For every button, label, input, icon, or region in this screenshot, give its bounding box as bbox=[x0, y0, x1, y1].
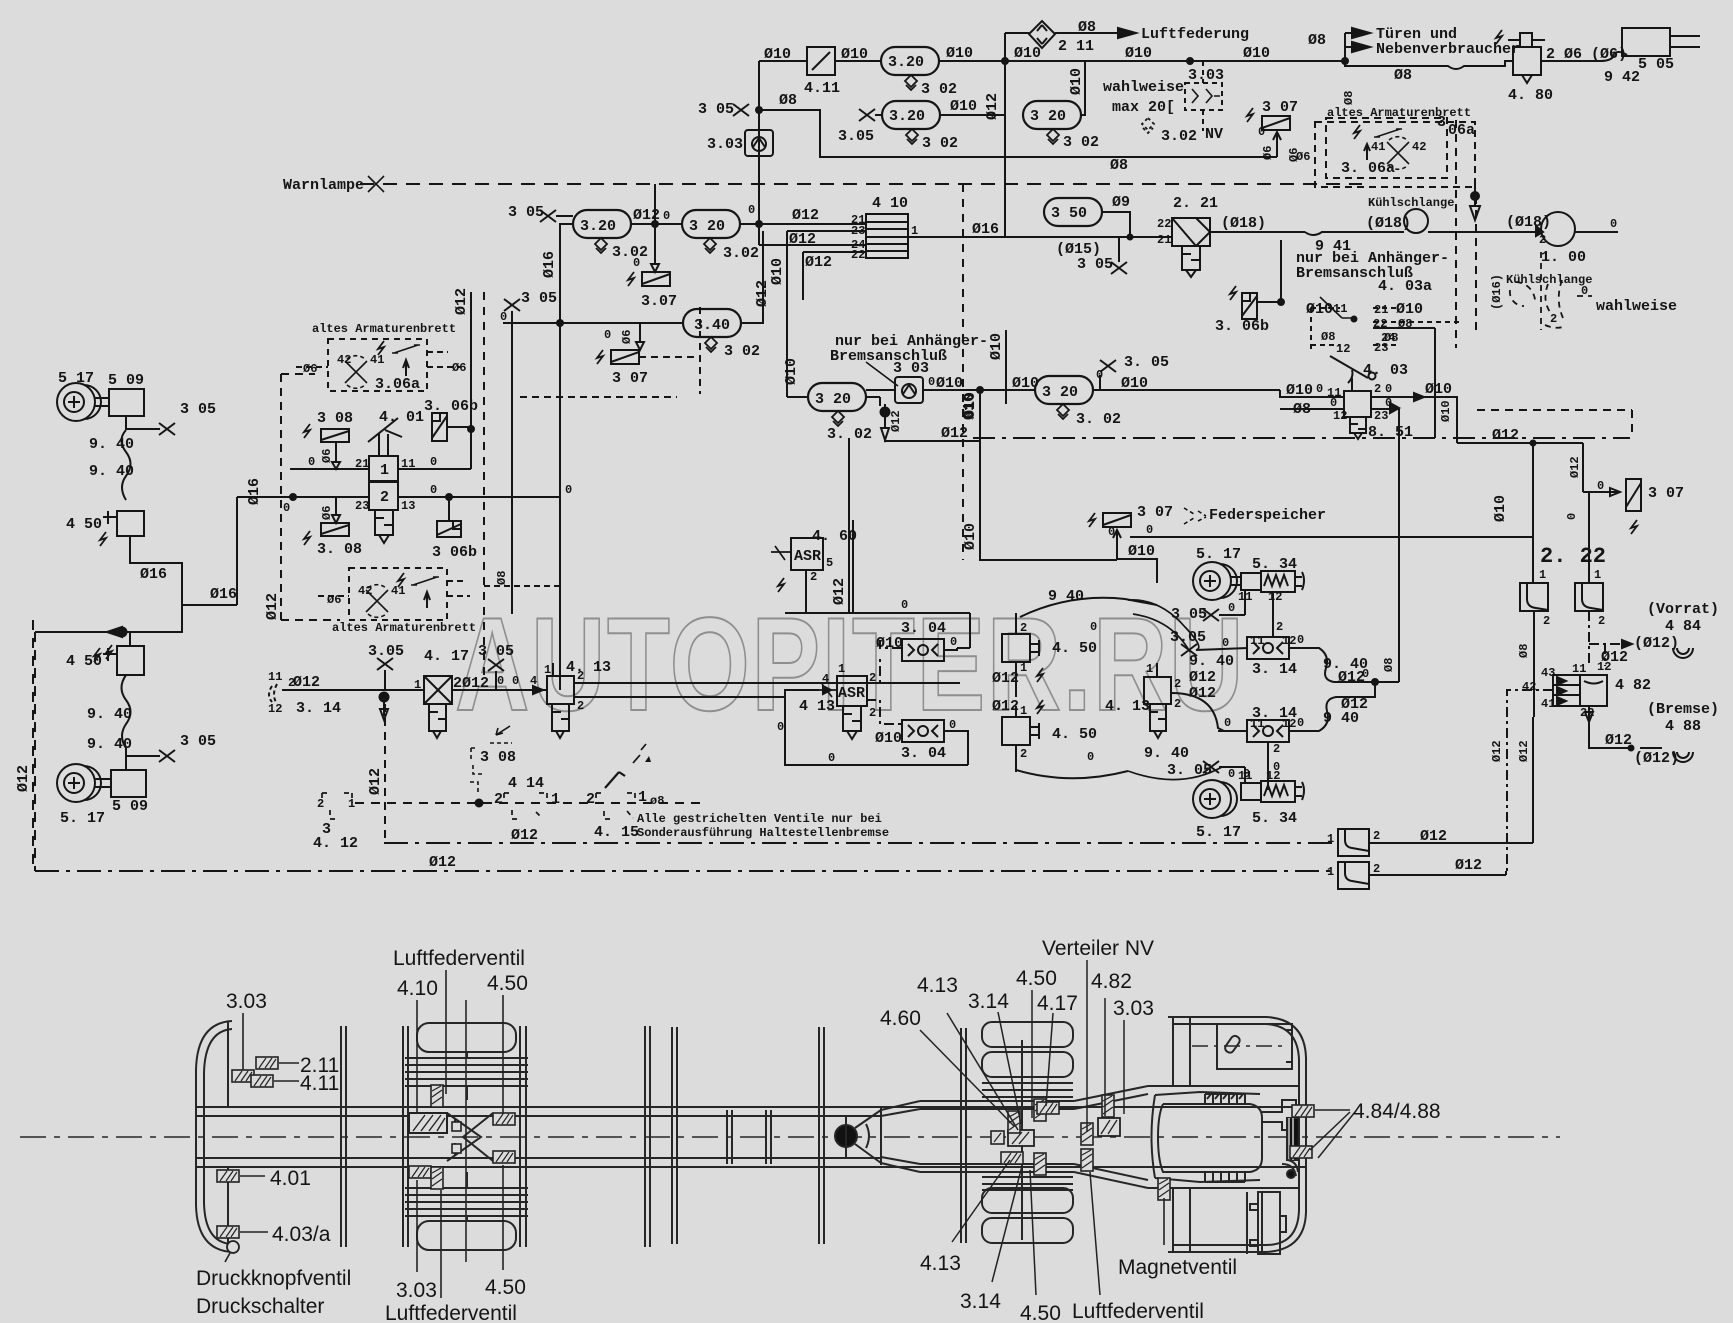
svg-text:Ø10: Ø10 bbox=[1286, 382, 1313, 399]
crossmember x520 bbox=[520, 1026, 526, 1247]
svg-text:Ø16: Ø16 bbox=[541, 251, 558, 278]
svg-text:3. 14: 3. 14 bbox=[1252, 661, 1297, 678]
svg-text:Ø6: Ø6 bbox=[303, 362, 317, 376]
svg-text:Ø10: Ø10 bbox=[1012, 375, 1039, 392]
valve block 4.01 lower bbox=[369, 482, 398, 510]
svg-text:0: 0 bbox=[308, 455, 315, 469]
svg-text:Ø8: Ø8 bbox=[1398, 317, 1412, 331]
svg-text:41: 41 bbox=[1371, 140, 1385, 154]
reservoir 3.20 no6 bbox=[682, 210, 740, 238]
svg-text:Ø8: Ø8 bbox=[1394, 67, 1412, 84]
svg-text:4. 50: 4. 50 bbox=[1052, 640, 1097, 657]
svg-text:9. 40: 9. 40 bbox=[89, 436, 134, 453]
tee Vorrat bbox=[1589, 644, 1630, 666]
wire 2.22a stem bbox=[1534, 492, 1589, 583]
node J1 bbox=[1002, 58, 1008, 64]
svg-text:0: 0 bbox=[500, 310, 507, 324]
wire x980 drop bbox=[980, 390, 1117, 560]
node below 3.03b bbox=[881, 408, 890, 417]
svg-text:22: 22 bbox=[851, 248, 865, 262]
svg-text:3 05: 3 05 bbox=[698, 101, 734, 118]
svg-text:3.14: 3.14 bbox=[960, 1290, 1001, 1313]
svg-text:4 50: 4 50 bbox=[66, 516, 102, 533]
svg-text:Ø6: Ø6 bbox=[452, 361, 466, 375]
sensor small vert b bbox=[431, 1167, 443, 1189]
drain 3.02 no4 bbox=[1047, 129, 1059, 144]
svg-text:3 20: 3 20 bbox=[815, 391, 851, 408]
wire 4.03 lower right bbox=[1371, 409, 1399, 682]
svg-text:2: 2 bbox=[1174, 677, 1181, 691]
box altes Armaturenbrett bottom bbox=[349, 568, 447, 620]
svg-text:9. 40: 9. 40 bbox=[89, 463, 134, 480]
wire Ø8 x1400 bbox=[1398, 409, 1400, 682]
wire left arrow branch bbox=[35, 605, 182, 632]
wire ASR2 port2b down bbox=[866, 700, 902, 724]
drain 4.80 bbox=[1522, 75, 1532, 83]
gearbox right bbox=[1262, 1100, 1296, 1130]
svg-text:12: 12 bbox=[1266, 769, 1280, 783]
svg-text:Ø9: Ø9 bbox=[1112, 194, 1130, 211]
svg-text:22: 22 bbox=[1580, 706, 1594, 720]
test point 3.05 g bbox=[126, 755, 160, 757]
svg-text:altes Armaturenbrett: altes Armaturenbrett bbox=[312, 322, 456, 336]
svg-text:4.50: 4.50 bbox=[1020, 1302, 1061, 1323]
svg-text:Ø12: Ø12 bbox=[1189, 685, 1216, 702]
wire 42 dashdot left bbox=[1507, 690, 1553, 871]
lightning 3.07 no1 bbox=[628, 272, 634, 286]
svg-text:3. 08: 3. 08 bbox=[317, 541, 362, 558]
svg-text:2: 2 bbox=[1276, 620, 1283, 634]
valve 3.07 no3 bbox=[1103, 513, 1131, 527]
articulation pivot bbox=[835, 1125, 857, 1147]
svg-text:Ø8: Ø8 bbox=[779, 92, 797, 109]
drain 3.02 no6 bbox=[704, 238, 716, 253]
svg-text:42: 42 bbox=[1412, 140, 1426, 154]
switch sym 3.06a bbox=[392, 345, 420, 353]
wire Ø12 elbow bbox=[885, 440, 979, 441]
node y443 bbox=[1531, 441, 1536, 446]
svg-text:0: 0 bbox=[1228, 767, 1235, 781]
svg-text:Ø10: Ø10 bbox=[841, 46, 868, 63]
svg-text:2. 21: 2. 21 bbox=[1173, 195, 1218, 212]
bowl 4.17 bbox=[429, 704, 446, 738]
node x655 bbox=[652, 221, 658, 227]
svg-text:Ø12: Ø12 bbox=[1455, 857, 1482, 874]
dashed border left bbox=[32, 620, 34, 871]
wire into 5.09no2 bbox=[125, 748, 127, 770]
svg-text:0: 0 bbox=[1597, 479, 1604, 493]
svg-text:2: 2 bbox=[1550, 312, 1557, 326]
svg-text:Ø10: Ø10 bbox=[769, 258, 786, 285]
wire Ø6 drop2 bbox=[332, 497, 340, 523]
wire box2 out bbox=[1369, 871, 1506, 875]
valve 4.15 dashes bbox=[596, 793, 635, 819]
sensor small vert a bbox=[431, 1085, 443, 1107]
svg-text:Ø12: Ø12 bbox=[992, 670, 1019, 687]
sym 13.08 bbox=[470, 743, 512, 792]
dashed verticals right bbox=[1456, 120, 1476, 348]
engine teeth top bbox=[1205, 1094, 1245, 1104]
reservoir 3.20 no1 bbox=[881, 47, 939, 75]
svg-text:Ø8: Ø8 bbox=[1321, 330, 1335, 344]
svg-text:4.11: 4.11 bbox=[300, 1072, 339, 1095]
svg-text:4. 17: 4. 17 bbox=[424, 648, 469, 665]
dryer 4.01 bbox=[375, 510, 393, 543]
wire 22 down bbox=[1585, 706, 1631, 748]
svg-text:0: 0 bbox=[828, 751, 835, 765]
svg-text:Ø10: Ø10 bbox=[1068, 68, 1085, 95]
svg-text:(Ø18): (Ø18) bbox=[1366, 215, 1411, 232]
wire 4.17 to 4.13 bbox=[452, 689, 547, 691]
svg-text:4.82: 4.82 bbox=[1091, 970, 1132, 993]
svg-text:Ø12: Ø12 bbox=[1492, 427, 1519, 444]
arrow down Ø12 bbox=[881, 404, 889, 440]
svg-text:3.20: 3.20 bbox=[580, 218, 616, 235]
test point 3.05 n bbox=[488, 659, 504, 671]
svg-text:3.03: 3.03 bbox=[1188, 67, 1224, 84]
svg-text:1: 1 bbox=[1020, 661, 1027, 675]
body front verticals bbox=[1173, 1017, 1190, 1252]
compressor 5.05 bbox=[1622, 28, 1670, 56]
svg-text:2: 2 bbox=[1543, 614, 1550, 628]
wire Ø10 x1533 bbox=[1532, 443, 1534, 583]
svg-text:2 11: 2 11 bbox=[1058, 38, 1094, 55]
wire 5.34r1 port11 bbox=[1244, 590, 1246, 615]
small squares bbox=[452, 1122, 461, 1131]
wire top right Tueren arrows bbox=[1345, 33, 1352, 61]
svg-text:0: 0 bbox=[1316, 382, 1323, 396]
svg-text:Ø16: Ø16 bbox=[972, 221, 999, 238]
svg-text:Ø10: Ø10 bbox=[1492, 495, 1509, 522]
svg-text:2Ø12: 2Ø12 bbox=[453, 675, 489, 692]
dash arrows Federspeicher bbox=[1184, 508, 1206, 524]
wire x1157 drop bbox=[1117, 537, 1157, 580]
inner crossmember x727 bbox=[727, 1110, 732, 1164]
spring cylinder 5.34 r1 bbox=[1241, 571, 1304, 592]
svg-text:3 07: 3 07 bbox=[612, 370, 648, 387]
wire 2.21 out Ø18 bbox=[1210, 231, 1305, 233]
svg-text:4 14: 4 14 bbox=[508, 775, 544, 792]
front wheel bottom bbox=[417, 1221, 516, 1250]
wire pill5-pill6 bbox=[631, 223, 682, 225]
svg-text:(Ø12): (Ø12) bbox=[1634, 635, 1679, 652]
svg-text:4.17: 4.17 bbox=[1037, 992, 1078, 1015]
svg-text:4.10: 4.10 bbox=[397, 977, 438, 1000]
lightning 3.06a b bbox=[398, 573, 404, 587]
wire 3.14r1 out bbox=[1289, 648, 1375, 682]
svg-text:2: 2 bbox=[869, 706, 876, 720]
svg-text:4. 50: 4. 50 bbox=[1052, 726, 1097, 743]
wire 4.50r3 net bbox=[970, 613, 1016, 628]
svg-text:3.07: 3.07 bbox=[641, 293, 677, 310]
svg-text:1: 1 bbox=[348, 797, 355, 811]
front bumper inner bbox=[204, 1029, 232, 1244]
svg-text:0: 0 bbox=[1362, 667, 1369, 681]
svg-text:Ø12: Ø12 bbox=[831, 578, 848, 605]
svg-text:12: 12 bbox=[1336, 342, 1350, 356]
body outline rear bbox=[1168, 1017, 1306, 1252]
svg-text:NV: NV bbox=[1205, 126, 1223, 143]
arrow on wire bbox=[1414, 393, 1424, 401]
lightning 3.06a bbox=[378, 341, 384, 355]
svg-text:21: 21 bbox=[1157, 233, 1171, 247]
svg-text:5. 34: 5. 34 bbox=[1252, 810, 1297, 827]
wire ASR1 down bbox=[805, 570, 807, 613]
svg-text:41: 41 bbox=[1541, 697, 1555, 711]
svg-text:(Vorrat): (Vorrat) bbox=[1647, 601, 1719, 618]
svg-text:0: 0 bbox=[1222, 636, 1229, 650]
svg-text:4: 4 bbox=[530, 674, 537, 688]
wire x1006 seg bbox=[1005, 330, 1007, 404]
dryer ASR2 bbox=[843, 706, 861, 739]
svg-text:2: 2 bbox=[1174, 697, 1181, 711]
wire x1375 to x1400 bbox=[1375, 681, 1399, 683]
svg-text:Ø12: Ø12 bbox=[264, 593, 281, 620]
svg-text:3. 04: 3. 04 bbox=[901, 620, 946, 637]
svg-text:3 20: 3 20 bbox=[689, 218, 725, 235]
valve 3.08 no1 bbox=[321, 429, 349, 442]
lightning 4.80 bbox=[1496, 30, 1502, 44]
svg-text:Ø6: Ø6 bbox=[320, 449, 334, 463]
svg-text:Ø10: Ø10 bbox=[1121, 375, 1148, 392]
svg-text:Ø12: Ø12 bbox=[792, 207, 819, 224]
svg-text:4 50: 4 50 bbox=[66, 653, 102, 670]
svg-text:altes Armaturenbrett: altes Armaturenbrett bbox=[332, 621, 476, 635]
svg-text:Ø10: Ø10 bbox=[1128, 543, 1155, 560]
svg-text:Ø12: Ø12 bbox=[1490, 740, 1504, 762]
frame taper to body bbox=[1074, 1086, 1148, 1188]
wire x1085 riser bbox=[1080, 61, 1085, 115]
wire 3.06b3 out bbox=[1257, 301, 1281, 303]
front wheel top bbox=[417, 1023, 516, 1052]
svg-text:Ø8: Ø8 bbox=[495, 571, 509, 585]
pipe gauge1 bbox=[95, 398, 109, 406]
svg-text:3.14: 3.14 bbox=[968, 990, 1009, 1013]
svg-text:Ø10: Ø10 bbox=[876, 635, 903, 652]
svg-text:22: 22 bbox=[1157, 217, 1171, 231]
svg-text:0: 0 bbox=[1096, 368, 1103, 382]
svg-text:3. 05: 3. 05 bbox=[1167, 762, 1212, 779]
svg-text:3 08: 3 08 bbox=[480, 749, 516, 766]
wire x512 drop bbox=[511, 323, 513, 614]
lightning 3.07no3 bbox=[1089, 513, 1095, 527]
druckknopf button bbox=[227, 1241, 239, 1253]
drain 3.02 no1 bbox=[905, 75, 917, 90]
wire top port bbox=[552, 663, 554, 676]
svg-text:12: 12 bbox=[1597, 660, 1611, 674]
node J4 bbox=[756, 107, 762, 113]
svg-text:4. 03a: 4. 03a bbox=[1378, 278, 1432, 295]
air dryer 4.13 r bbox=[1144, 677, 1171, 704]
svg-text:Luftfederventil: Luftfederventil bbox=[1072, 1300, 1204, 1323]
test point 3.05 c bbox=[540, 210, 556, 222]
rear wheel b1 bbox=[982, 1188, 1073, 1213]
wire 3.03b out Ø10 bbox=[923, 389, 1035, 391]
crossmember x672 bbox=[672, 1027, 677, 1244]
shuttle valve 3.14 r1 bbox=[1247, 637, 1289, 659]
svg-text:Ø12: Ø12 bbox=[1568, 456, 1582, 478]
svg-text:(Ø16): (Ø16) bbox=[1490, 274, 1504, 310]
relay valve 2.22 a bbox=[1520, 583, 1548, 611]
dashed y803 bbox=[355, 802, 700, 804]
svg-text:Federspeicher: Federspeicher bbox=[1209, 507, 1326, 524]
svg-text:13: 13 bbox=[401, 499, 415, 513]
dashed x385 bbox=[384, 704, 386, 843]
switch box y843 bbox=[1338, 829, 1369, 856]
svg-text:Ø8: Ø8 bbox=[1110, 157, 1128, 174]
reservoir 3.20 no4 bbox=[1023, 101, 1081, 129]
switch sym 3.06a right bbox=[1374, 129, 1402, 137]
svg-text:Ø12: Ø12 bbox=[889, 410, 903, 432]
relay valve 2.22 b bbox=[1575, 583, 1603, 611]
svg-text:2: 2 bbox=[1273, 742, 1280, 756]
svg-text:4 13: 4 13 bbox=[799, 698, 835, 715]
svg-text:max 20[: max 20[ bbox=[1112, 99, 1175, 116]
svg-text:1: 1 bbox=[838, 662, 845, 676]
svg-text:4. 15: 4. 15 bbox=[594, 824, 639, 841]
svg-text:3 02: 3 02 bbox=[921, 81, 957, 98]
lightning 450no3 bbox=[1037, 668, 1043, 682]
truck component boxes + labels bbox=[196, 937, 1441, 1323]
wire 3.04no1 out up bbox=[944, 648, 957, 650]
svg-text:1: 1 bbox=[1020, 704, 1027, 718]
wire 4.03 lower left bbox=[1280, 408, 1344, 410]
svg-text:3.05: 3.05 bbox=[1170, 629, 1206, 646]
svg-text:3 50: 3 50 bbox=[1051, 205, 1087, 222]
svg-text:Ø12: Ø12 bbox=[453, 288, 470, 315]
sensor 4.13 ra bbox=[1008, 1130, 1034, 1146]
svg-text:(Ø18): (Ø18) bbox=[1221, 215, 1266, 232]
muffler bbox=[1250, 1192, 1286, 1254]
svg-text:1: 1 bbox=[1327, 865, 1334, 879]
svg-text:4.13: 4.13 bbox=[920, 1252, 961, 1275]
lightning 3.07no4 bbox=[1631, 520, 1637, 534]
svg-text:4.50: 4.50 bbox=[1016, 967, 1057, 990]
svg-text:Ø12: Ø12 bbox=[293, 674, 320, 691]
lightning at arrow bbox=[106, 645, 112, 659]
crossmember x341 bbox=[341, 1026, 346, 1247]
svg-text:1: 1 bbox=[414, 678, 421, 692]
svg-text:Luftfederventil: Luftfederventil bbox=[385, 1302, 517, 1323]
svg-text:Ø6: Ø6 bbox=[1296, 150, 1310, 164]
wire x655 riser bbox=[654, 184, 656, 224]
svg-text:4. 12: 4. 12 bbox=[313, 835, 358, 852]
valve 3.06b no3 bbox=[1242, 293, 1257, 319]
wire 4.03 out right bbox=[1371, 397, 1457, 443]
test point 3.05 a bbox=[733, 104, 749, 116]
svg-text:Ø12: Ø12 bbox=[789, 231, 816, 248]
crossmember x819 bbox=[819, 1027, 824, 1244]
svg-text:5 09: 5 09 bbox=[112, 798, 148, 815]
filter valve 4.17 bbox=[424, 676, 452, 704]
pressure switch 4.50 no2 bbox=[117, 646, 144, 675]
svg-text:1. 00: 1. 00 bbox=[1541, 249, 1586, 266]
svg-text:3.02: 3.02 bbox=[1161, 128, 1197, 145]
node 3.06b3 bbox=[1278, 299, 1284, 305]
svg-text:9. 40: 9. 40 bbox=[87, 706, 132, 723]
valve 3.07 no4 bbox=[1626, 479, 1641, 511]
svg-text:3.05: 3.05 bbox=[838, 128, 874, 145]
svg-text:0: 0 bbox=[1228, 601, 1235, 615]
svg-text:Ø12: Ø12 bbox=[1420, 828, 1447, 845]
wire x471 bbox=[470, 292, 472, 469]
svg-text:0: 0 bbox=[1610, 217, 1617, 231]
svg-text:4.01: 4.01 bbox=[270, 1167, 311, 1190]
svg-text:(Ø18): (Ø18) bbox=[1506, 214, 1551, 231]
pulley block bbox=[1287, 1118, 1299, 1160]
sensor 3.03 rb bbox=[1098, 1118, 1120, 1136]
svg-text:Ø10: Ø10 bbox=[1306, 301, 1333, 318]
lightning 3.08 no1 bbox=[304, 424, 310, 438]
lamp sym 3.06a bbox=[345, 356, 367, 389]
svg-text:5: 5 bbox=[826, 556, 833, 570]
svg-text:23: 23 bbox=[851, 224, 865, 238]
svg-text:1: 1 bbox=[551, 791, 560, 808]
svg-text:11: 11 bbox=[268, 670, 282, 684]
svg-text:0: 0 bbox=[430, 455, 437, 469]
drain 3.02 no8 bbox=[1057, 404, 1069, 419]
gauge 5.17 r2 bbox=[1193, 780, 1237, 818]
wire 41 down bbox=[1533, 700, 1553, 843]
leaders rear bbox=[920, 1030, 1014, 1126]
svg-text:2 Ø6 (Ø6): 2 Ø6 (Ø6) bbox=[1546, 46, 1627, 63]
svg-text:41: 41 bbox=[391, 584, 405, 598]
svg-text:2: 2 bbox=[810, 570, 817, 584]
drawbar triangle bbox=[855, 1108, 881, 1165]
svg-text:Ø12: Ø12 bbox=[15, 765, 32, 792]
dash-dot y843 bbox=[384, 842, 1338, 844]
svg-text:0: 0 bbox=[1297, 633, 1304, 647]
exhaust elbow bbox=[1282, 1160, 1298, 1176]
svg-text:41: 41 bbox=[370, 353, 384, 367]
svg-text:Ø10: Ø10 bbox=[1425, 381, 1452, 398]
lightning 4.50no2 bbox=[94, 648, 100, 662]
svg-text:Luftfederventil: Luftfederventil bbox=[393, 947, 525, 970]
dryer 8.51 bbox=[1350, 417, 1366, 439]
svg-text:Ø6: Ø6 bbox=[620, 330, 634, 344]
svg-text:1: 1 bbox=[1146, 662, 1153, 676]
svg-text:4.13: 4.13 bbox=[917, 974, 958, 997]
svg-text:12: 12 bbox=[268, 702, 282, 716]
svg-text:wahlweise: wahlweise bbox=[1596, 298, 1677, 315]
svg-text:Ø12: Ø12 bbox=[1338, 669, 1365, 686]
svg-text:3.03: 3.03 bbox=[707, 136, 743, 153]
svg-text:Druckknopfventil: Druckknopfventil bbox=[196, 1267, 351, 1290]
valve 2.21 bbox=[1172, 218, 1210, 246]
sensor 4.01 truck bbox=[217, 1170, 239, 1182]
svg-text:3 05: 3 05 bbox=[508, 204, 544, 221]
wire 3.20no5 elbow bbox=[560, 224, 573, 230]
svg-text:12: 12 bbox=[1282, 634, 1296, 648]
svg-text:Sonderausführung Haltestellenb: Sonderausführung Haltestellenbremse bbox=[637, 826, 889, 840]
wire pill7 to 3.03b bbox=[866, 390, 895, 406]
svg-text:3: 3 bbox=[322, 821, 331, 838]
svg-text:wahlweise: wahlweise bbox=[1103, 79, 1184, 96]
coupling head Bremse bbox=[1673, 752, 1693, 762]
svg-text:Verteiler NV: Verteiler NV bbox=[1042, 937, 1154, 960]
switch box y871 bbox=[1338, 862, 1369, 889]
svg-text:8. 51: 8. 51 bbox=[1368, 424, 1413, 441]
wire 4.13 up bbox=[552, 662, 554, 676]
svg-text:0: 0 bbox=[430, 483, 437, 497]
svg-text:Luftfederung: Luftfederung bbox=[1141, 26, 1249, 43]
valve block 4.01 upper bbox=[369, 456, 398, 481]
crossmember x645 bbox=[645, 1026, 650, 1247]
svg-text:0: 0 bbox=[604, 328, 611, 342]
hose 9.40 arc top bbox=[1016, 560, 1118, 620]
big arcs left hoses bbox=[1128, 600, 1199, 650]
wire 3.14r2 port2 bbox=[1267, 742, 1269, 790]
